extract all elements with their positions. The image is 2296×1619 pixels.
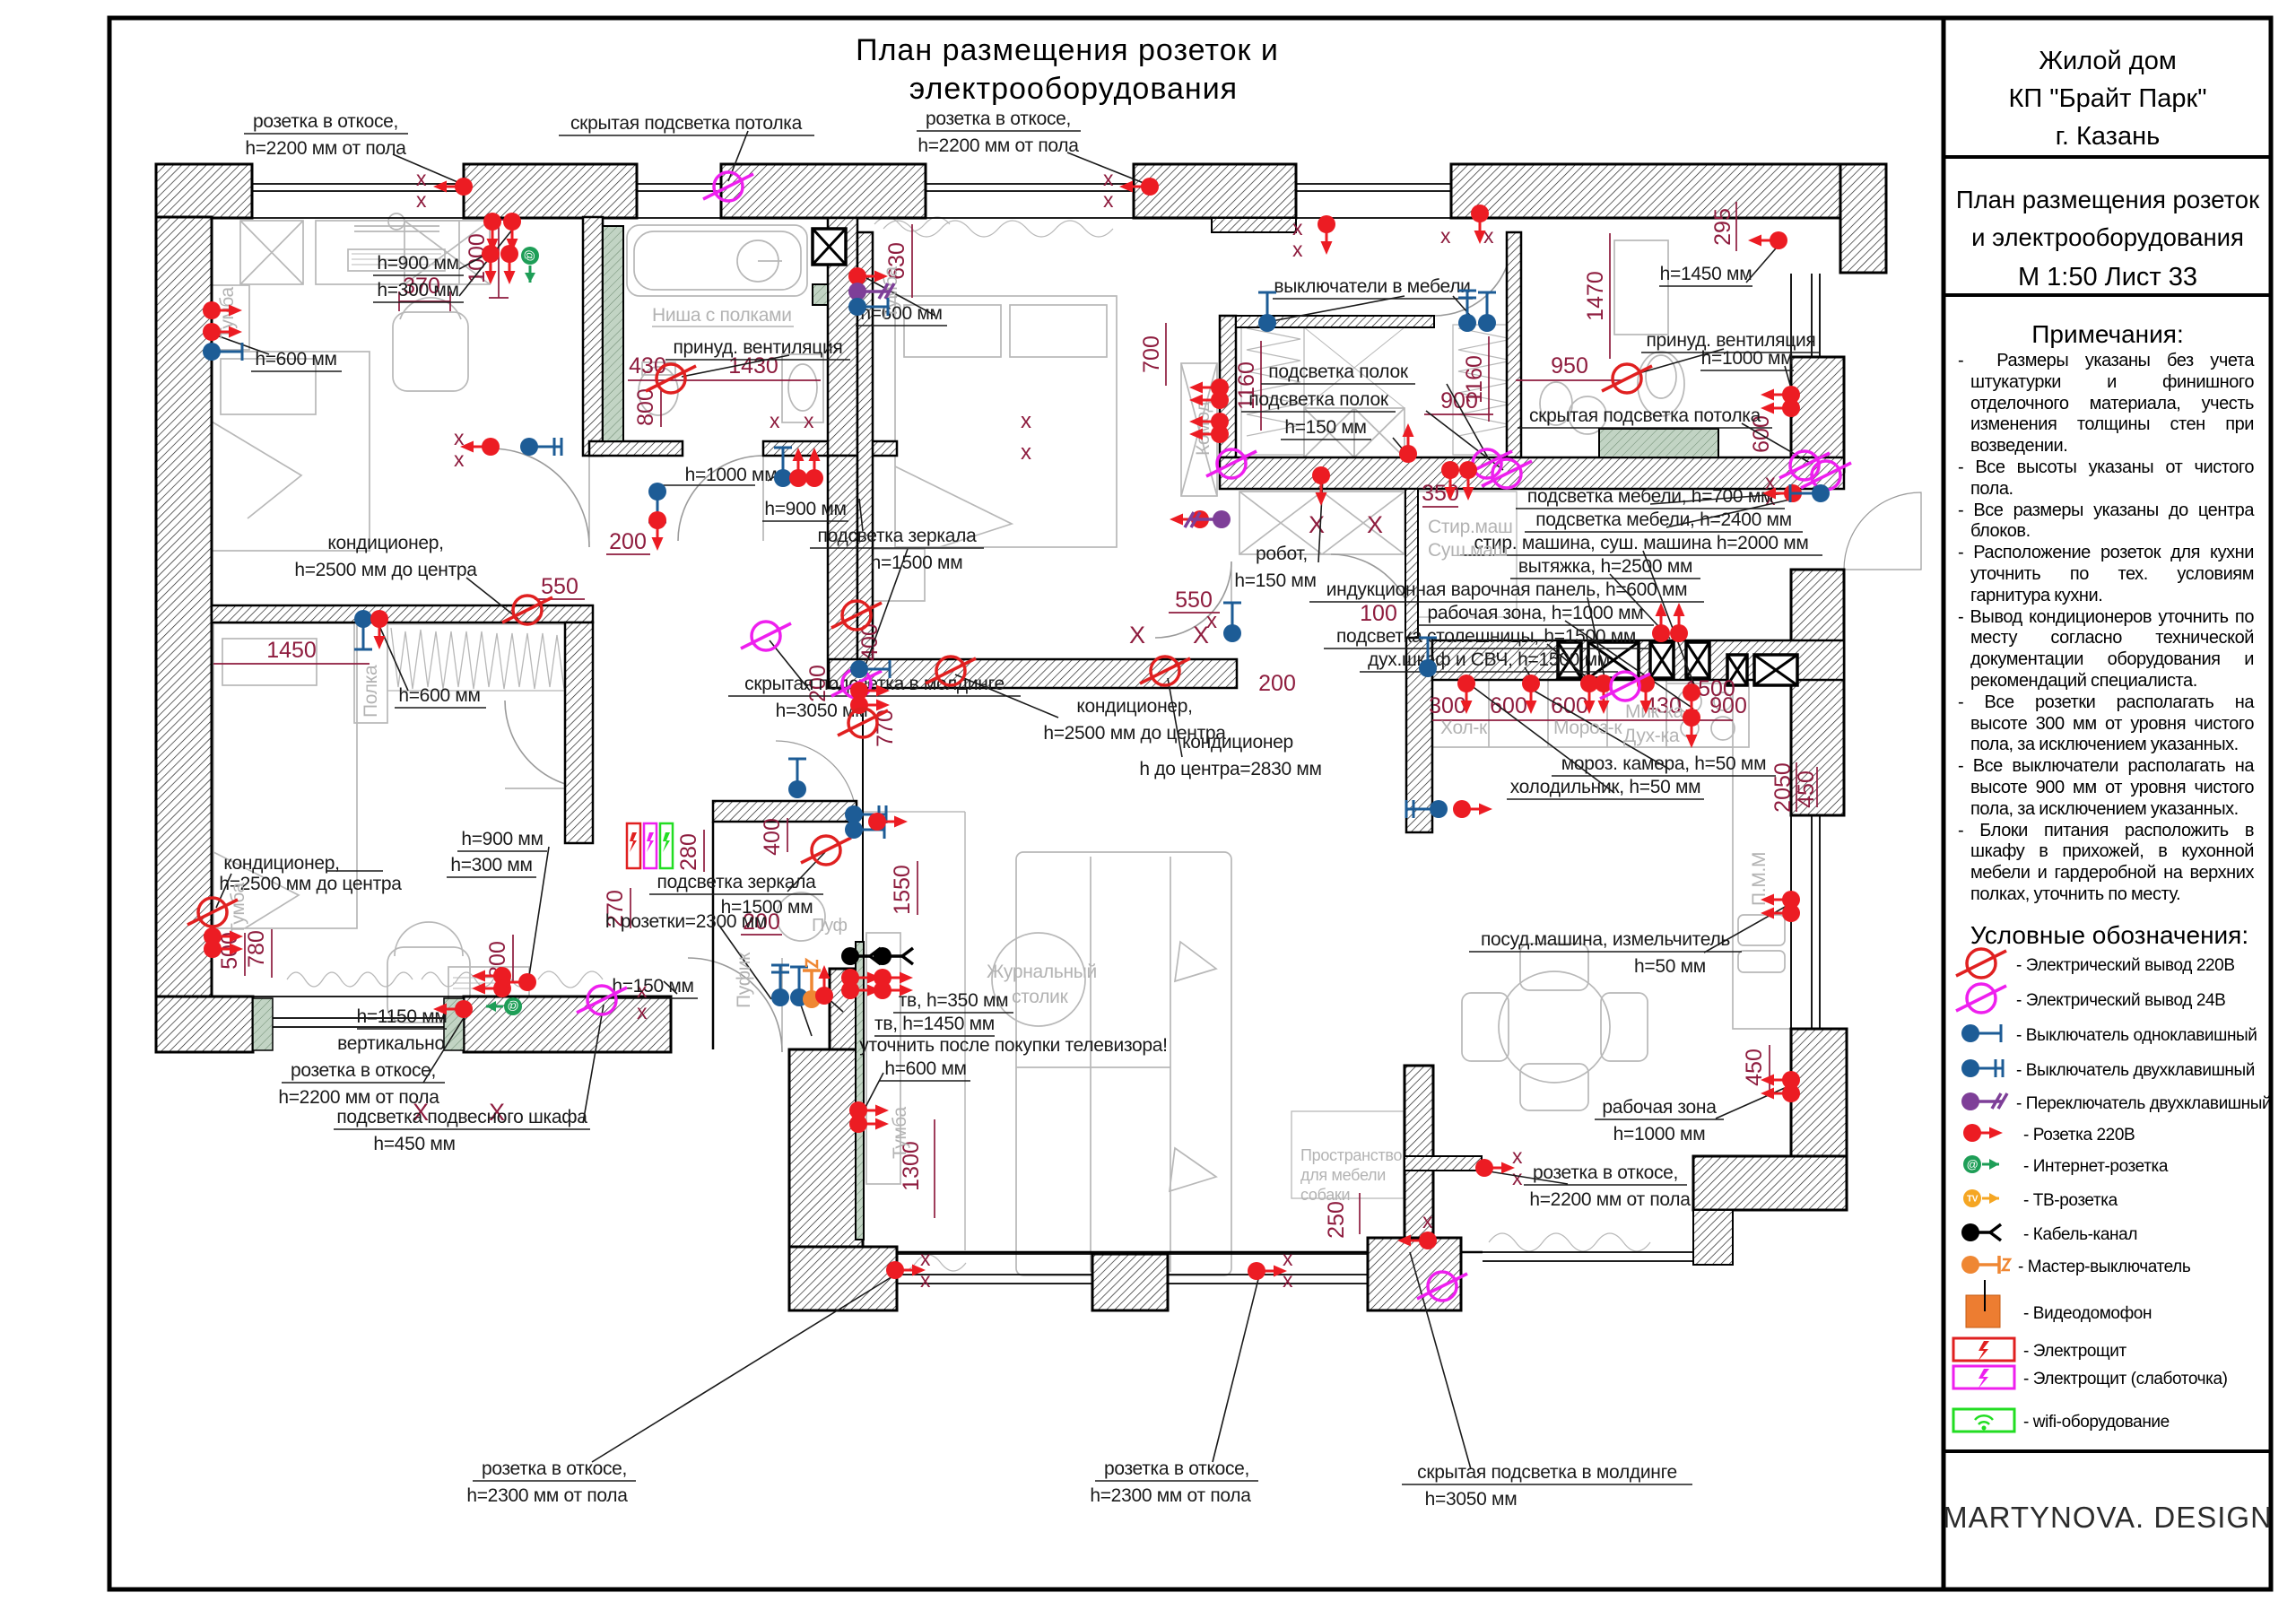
wc2 north wall [713,801,857,822]
kitchen west wall [1406,638,1432,832]
door bedroom1 [491,448,589,547]
svg-text:- Интернет-розетка: - Интернет-розетка [2023,1157,2169,1176]
svg-text:холодильник, h=50 мм: холодильник, h=50 мм [1510,777,1701,797]
radiator squiggles bedroom3 [287,972,413,987]
window jamb green right [444,998,464,1050]
svg-text:450: 450 [1794,770,1819,808]
svg-text:Ниша с полками: Ниша с полками [652,305,792,326]
svg-text:тв, h=350 мм: тв, h=350 мм [899,990,1009,1011]
svg-text:подсветка зеркала: подсветка зеркала [657,872,817,892]
svg-text:600: 600 [1490,693,1527,718]
socket 220V at 1655,1302 [1475,1159,1515,1177]
svg-text:h=150 мм: h=150 мм [612,976,693,997]
bath east wall [828,218,857,456]
svg-text:электрооборудования: электрооборудования [909,72,1238,106]
socket 220V at 1999,550 [1762,484,1802,502]
electrical outlet 24V at 671,1115 [577,986,627,1014]
exterior bottom wall dining [1693,1156,1847,1210]
internet socket at 591,285 [521,247,539,283]
switch 1-key at 1413,360 [1258,292,1276,332]
electrical outlet 24V at 854,709 [741,622,791,650]
svg-text:600: 600 [1551,693,1588,718]
svg-text:Пространство: Пространство [1300,1146,1402,1164]
changeover switch at 1362,579 [1185,510,1231,528]
socket 220V at 236,346 [203,301,242,319]
exterior right wall segment [1791,357,1844,472]
kitchen counter right [1733,680,1791,1029]
svg-text:1470: 1470 [1583,271,1608,321]
socket 220V at 1360,484 [1189,425,1229,443]
wifi equipment box [660,823,673,868]
socket 220V at 1650,238 [1471,205,1489,244]
svg-text:h=900 мм: h=900 мм [764,499,846,519]
svg-text:h=50 мм: h=50 мм [1634,956,1706,977]
svg-text:h=2200 мм от пола: h=2200 мм от пола [278,1087,439,1108]
svg-text:г. Казань: г. Казань [2056,122,2160,151]
socket 220V at 1360,470 [1189,413,1229,431]
socket 220V at 236,370 [203,323,242,341]
svg-text:h=2500 мм до центра: h=2500 мм до центра [294,560,477,580]
wall step dining corner [1693,1210,1733,1265]
bedroom1 desk [316,221,459,284]
kitchen vent box 4 [1686,642,1709,678]
entrance door [688,958,782,1052]
svg-text:x: x [920,1247,931,1270]
legend cable channel [1961,1223,2001,1241]
interior wall closet-hall [565,622,593,843]
socket 220V at 1617,524 [1441,461,1459,500]
electrical outlet 220V at 1060,748 [926,657,976,685]
svg-text:h=2200 мм от пола: h=2200 мм от пола [245,138,406,159]
svg-text:План размещения розеток и: План размещения розеток и [856,33,1279,67]
exterior right wall bottom chunk [1791,1029,1847,1210]
electrical outlet 24V at 812,208 [703,172,753,201]
svg-text:розетка в откосе,: розетка в откосе, [1533,1162,1678,1183]
switch 1-key at 891,1112 [790,967,808,1006]
legend outlet 220V [1956,949,2006,978]
svg-text:1550: 1550 [890,865,915,915]
socket 220V at 1479,250 [1318,215,1335,255]
svg-text:x: x [637,1000,648,1023]
svg-text:Стир.маш: Стир.маш [1428,517,1513,537]
svg-text:Жилой дом: Жилой дом [2039,47,2177,75]
svg-text:столик: столик [1012,987,1069,1007]
svg-text:h=600 мм: h=600 мм [884,1058,966,1079]
svg-text:x: x [1440,224,1451,248]
svg-text:h до центра=2830 мм: h до центра=2830 мм [1139,759,1321,779]
svg-text:индукционная варочная панель,: индукционная варочная панель, h=600 мм [1326,579,1688,600]
hall east wall [828,456,857,688]
socket 220V at 1559,1374 [1397,1232,1437,1249]
wc2 pouf [777,892,825,941]
interior wall between bedrooms [212,605,593,622]
kitchen vent box 3 [1650,642,1674,678]
socket 220V at 978,916 [868,813,908,831]
sidebar divider [1942,18,1946,1589]
kitchen vent box 5 [1727,655,1747,685]
electrical outlet 220V at 955,686 [831,601,882,630]
svg-text:950: 950 [1551,353,1588,379]
exterior right wall segment kitchen [1791,570,1844,815]
svg-text:вертикально: вертикально [337,1033,445,1054]
svg-text:скрытая подсветка потолка: скрытая подсветка потолка [1529,405,1761,426]
svg-text:x: x [1103,188,1114,212]
svg-text:h=2200 мм от пола: h=2200 мм от пола [918,135,1079,156]
switch 2-key at 590,498 [520,438,561,456]
svg-text:x: x [770,409,780,432]
electrical outlet 220V at 583,694 [502,596,552,624]
svg-text:250: 250 [1324,1201,1349,1239]
socket 220V at 1473,530 [1312,466,1330,506]
svg-text:- Кабель-канал: - Кабель-канал [2023,1225,2137,1244]
socket 220V at 1997,1219 [1761,1084,1800,1102]
stove [1666,683,1749,747]
svg-text:X: X [1367,511,1383,538]
electrical outlet 220V at 962,806 [838,709,888,737]
svg-text:x: x [416,188,427,212]
svg-text:200: 200 [609,529,647,554]
socket 220V at 517,208 [433,178,473,196]
socket 220V at 1788,762 [1595,675,1613,714]
svg-text:2050: 2050 [1770,762,1796,813]
svg-text:подсветка столешницы, h=1500 м: подсветка столешницы, h=1500 мм [1336,626,1636,647]
socket 220V at 890,533 [789,448,807,487]
corridor cabinet [1239,492,1405,554]
exterior wall top chunk 3 [721,164,926,218]
socket 220V at 560,1102 [472,979,511,997]
switch 1-key at 733,548 [648,483,666,522]
interior wall bedroom1-bath [583,217,603,456]
socket 220V at 919,1110 [815,965,833,1005]
kitchen vent box 6 [1754,655,1797,685]
socket 220V at 1997,1204 [1761,1071,1800,1089]
switch 1-key at 236,392 [203,343,242,361]
bedroom3 armchair [387,947,470,1023]
bedroom2 bed [895,296,1117,547]
svg-text:- Выключатель одноклавишный: - Выключатель одноклавишный [2016,1026,2257,1045]
vent shaft box [813,229,846,265]
bedroom1 wardrobe [240,221,303,284]
socket 220V at 1886,800 [1683,709,1700,748]
svg-text:мороз. камера, h=50 мм: мороз. камера, h=50 мм [1561,753,1766,774]
svg-text:h=1450 мм: h=1450 мм [1660,264,1752,284]
switch 1-key at 1658,360 [1478,292,1496,332]
bath2 west wall [1507,232,1521,457]
window sill lines [252,184,1820,1284]
svg-text:Мороз-к: Мороз-к [1553,718,1622,738]
svg-text:Тумба: Тумба [228,883,248,935]
svg-text:x: x [454,448,465,471]
underlines [244,131,1822,1484]
svg-text:h=1000 мм: h=1000 мм [685,465,778,485]
svg-text:кондиционер: кондиционер [1182,732,1293,753]
bedroom1 chair [393,312,468,391]
svg-text:x: x [804,409,814,432]
legend internet socket [1963,1155,1999,1173]
svg-text:h=600 мм: h=600 мм [398,685,480,706]
bay bottom wall chunk [1368,1238,1461,1310]
socket 220V at 560,1088 [472,967,511,985]
svg-text:- Выключатель двухклавишный: - Выключатель двухклавишный [2016,1061,2255,1080]
svg-text:- ТВ-розетка: - ТВ-розетка [2023,1191,2118,1210]
svg-text:h=2300 мм от пола: h=2300 мм от пола [1090,1485,1251,1506]
exterior wall top chunk 5 [1451,164,1840,218]
tv stand [866,933,900,1184]
socket 220V at 966,1204 [849,1115,889,1133]
svg-text:и электрооборудования: и электрооборудования [1971,223,2244,251]
bath green niche [603,226,623,441]
electrical outlet 24V at 1373,517 [1206,449,1257,478]
socket 220V at 948,1104 [841,981,881,999]
svg-text:посуд.машина, измельчитель: посуд.машина, измельчитель [1481,929,1730,950]
svg-text:800: 800 [633,388,658,426]
socket 220V at 733,580 [648,511,666,551]
socket 220V at 966,1190 [849,1101,889,1119]
exterior wall top chunk 2 [464,164,637,218]
exterior bottom wall chunk [464,997,671,1052]
svg-text:h=1000 мм: h=1000 мм [1701,348,1794,369]
bedroom2 curtain [883,221,1113,237]
svg-text:уточнить после покупки телевиз: уточнить после покупки телевизора! [859,1035,1167,1056]
svg-text:x: x [1483,224,1494,248]
electrical outlet 220V at 212,963 [187,898,238,927]
bay left wall [1405,1066,1433,1238]
socket 220V at 517,1125 [433,1000,473,1018]
green niches [253,226,1718,1240]
closet2 north wall [1236,316,1434,327]
socket 220V at 1852,706 [1652,603,1670,642]
terrace door [1844,492,1921,570]
svg-text:350: 350 [1422,481,1459,506]
bath2 green vanity [1599,429,1718,457]
svg-text:рабочая зона: рабочая зона [1602,1097,1717,1118]
socket 220V at 1401,1417 [1248,1262,1287,1280]
svg-text:700: 700 [1139,335,1164,373]
svg-text:h=1000 мм: h=1000 мм [1613,1124,1706,1145]
electrical panel 220V [627,823,640,868]
svg-text:h=150 мм: h=150 мм [1234,570,1316,591]
socket 220V at 1997,1003 [1761,891,1800,909]
door bedroom3 [505,701,593,788]
socket 220V at 1835,762 [1637,675,1655,714]
svg-text:розетка в откосе,: розетка в откосе, [1104,1458,1249,1479]
switch 2-key at 1636,360 [1458,291,1476,332]
socket 220V at 958,786 [850,696,890,714]
switch 1-key at 2030,550 [1790,484,1830,502]
socket 220V at 547,498 [460,438,500,456]
sofa [1016,852,1231,1275]
svg-text:430: 430 [629,353,666,379]
svg-text:x: x [1512,1145,1523,1168]
electrical outlet 24V at 955,762 [831,669,882,698]
socket 220V at 984,1090 [874,969,913,987]
svg-text:Полка: Полка [361,665,381,718]
closet2 west wall [1220,316,1236,457]
svg-text:h=900 мм: h=900 мм [461,829,543,849]
socket 220V at 424,683 [370,610,388,649]
closet2 shelf [1304,408,1354,457]
svg-text:x: x [1206,609,1217,633]
bath toilet [639,367,678,415]
bedroom3 desk [448,967,529,1030]
notes text block [1958,351,2254,906]
x marks [413,167,1776,1292]
closet1 hangers [391,628,571,689]
exterior left wall [156,217,212,997]
svg-text:h=1150 мм: h=1150 мм [356,1006,447,1027]
socket 220V at 956,308 [848,267,888,285]
bedroom2 dresser [1181,363,1217,496]
svg-text:розетка в откосе,: розетка в откосе, [291,1060,436,1081]
socket 220V at 958,770 [850,682,890,700]
svg-text:робот,: робот, [1256,544,1308,564]
svg-text:h розетки=2300 мм: h розетки=2300 мм [605,911,767,932]
walls hatched [156,164,1886,1310]
corridor east wall [1405,489,1418,638]
socket 220V at 237,1058 [204,940,243,958]
socket 220V at 568,283 [500,245,518,284]
legend changeover switch [1961,1092,2007,1110]
svg-text:выключатели в мебели: выключатели в мебели [1274,276,1470,297]
svg-text:- Электрощит (слаботочка): - Электрощит (слаботочка) [2023,1370,2228,1388]
switch 1-key at 958,746 [850,660,890,678]
kitchen black X boxes [813,229,1797,685]
electrical outlet 220V at 1299,748 [1140,657,1190,685]
tv wall upper part [830,969,863,1049]
svg-text:x: x [416,167,427,190]
svg-text:- Видеодомофон: - Видеодомофон [2023,1304,2152,1323]
switch 1-key at 952,925 [845,821,884,839]
master switch at 905,1114 [803,960,821,1008]
dog furniture area [1291,1111,1404,1198]
svg-text:розетка в откосе,: розетка в откосе, [482,1458,627,1479]
svg-text:собаки: собаки [1300,1186,1350,1204]
entry bottom wall chunk [789,1247,897,1310]
cable channel at 984,1066 [874,947,913,965]
living floor edge line [964,812,966,1250]
legend tv socket [1963,1189,1999,1207]
legend wifi equipment [1953,1409,2014,1432]
kitchen north wall [1432,640,1844,680]
living floor edge line [964,812,966,1250]
svg-text:- Переключатель двухклавишный: - Переключатель двухклавишный [2016,1094,2271,1113]
socket 220V at 1983,268 [1748,231,1787,249]
legend master switch [1961,1256,2010,1274]
svg-text:h=2300 мм от пола: h=2300 мм от пола [466,1485,628,1506]
legend socket 220V [1963,1124,2003,1142]
socket 220V at 1282,208 [1119,178,1159,196]
switch 1-key at 1374,706 [1223,603,1241,642]
svg-text:- Мастер-выключатель: - Мастер-выключатель [2018,1258,2191,1276]
bedroom2 nightstand [873,549,925,601]
svg-text:Суш.маш: Суш.маш [1428,540,1508,561]
switch 1-key at 1592,745 [1419,638,1437,677]
window jamb green left [253,998,273,1050]
svg-text:вытяжка, h=2500 мм: вытяжка, h=2500 мм [1518,556,1692,577]
svg-text:- Электрический вывод 220В: - Электрический вывод 220В [2016,956,2235,975]
svg-text:x: x [1292,216,1303,239]
svg-text:MARTYNOVA. DESIGN: MARTYNOVA. DESIGN [1943,1501,2273,1534]
legend switch 2-key [1961,1059,2003,1077]
socket 220V at 1997,440 [1761,386,1800,404]
svg-text:подсветка подвесного шкафа: подсветка подвесного шкафа [336,1107,587,1127]
svg-text:кондиционер,: кондиционер, [223,853,339,874]
svg-text:- Электрический вывод 24В: - Электрический вывод 24В [2016,991,2225,1010]
socket 220V at 1772,762 [1580,675,1598,714]
svg-text:кондиционер,: кондиционер, [327,533,443,553]
svg-text:X: X [1309,511,1325,538]
svg-text:Хол-к: Хол-к [1440,718,1488,738]
bath south wall left [589,441,683,456]
svg-text:x: x [1512,1166,1523,1189]
bath2 cabinet [1614,240,1668,335]
socket 220V at 1997,1018 [1761,904,1800,922]
socket 220V at 1707,762 [1522,675,1540,714]
legend video intercom [1966,1295,2000,1327]
svg-text:x: x [1021,440,1031,465]
svg-text:подсветка полок: подсветка полок [1268,361,1409,382]
electrical outlet 24V at 1812,765 [1600,672,1650,701]
svg-text:780: 780 [244,930,269,968]
bath green jamb [813,284,828,305]
svg-text:X: X [1129,622,1145,648]
bedroom2 south wall [829,659,1237,688]
laundry niche [1418,492,1517,617]
changeover switch at 956,325 [848,283,894,300]
svg-text:План размещения розеток: План размещения розеток [1956,186,2260,213]
exterior wall top-right corner pier [1840,164,1886,273]
exterior wall bottom-left corner [156,997,253,1052]
socket 220V at 1570,506 [1399,423,1417,463]
entry west wall [789,1049,863,1247]
svg-text:кондиционер,: кондиционер, [1076,696,1192,717]
socket 220V at 948,1090 [841,969,881,987]
svg-text:Комод: Комод [1193,402,1213,456]
socket 220V at 236,1057 [204,927,243,945]
furniture layer [212,213,1791,1275]
svg-text:Дух-ка: Дух-ка [1623,726,1680,746]
svg-text:подсветка мебели, h=2400 мм: подсветка мебели, h=2400 мм [1535,509,1792,530]
switch 2-key at 952,908 [845,805,886,823]
svg-text:- Электрощит: - Электрощит [2023,1342,2126,1361]
svg-text:h=150 мм: h=150 мм [1284,417,1366,438]
svg-text:для мебели: для мебели [1300,1166,1386,1184]
kitchen counters [1432,746,1733,748]
door bath [678,456,763,541]
svg-text:Пуфик: Пуфик [734,952,754,1008]
electrical outlet 24V at 2036,530 [1801,461,1851,490]
svg-text:400: 400 [760,818,785,856]
switch 1-key at 404,683 [354,610,372,649]
svg-text:280: 280 [676,833,701,871]
socket 220V at 1637,524 [1459,461,1477,500]
svg-text:200: 200 [1258,671,1296,696]
door closet2 [1434,238,1512,316]
svg-text:h=450 мм: h=450 мм [373,1134,455,1154]
svg-text:Тумба: Тумба [890,1107,910,1159]
tv wall green panel [856,942,864,1240]
svg-text:М 1:50 Лист 33: М 1:50 Лист 33 [2018,263,2197,292]
socket 220V at 549,247 [483,213,501,252]
svg-text:подсветка мебели, h=700 мм: подсветка мебели, h=700 мм [1527,486,1773,507]
svg-text:КП "Брайт Парк": КП "Брайт Парк" [2009,84,2207,113]
bath south wall right [763,441,897,456]
svg-text:- wifi-оборудование: - wifi-оборудование [2023,1413,2170,1432]
svg-text:подсветка зеркала: подсветка зеркала [818,526,978,546]
electrical panels in hall [627,823,673,868]
bottom curtains living [865,1255,966,1271]
kitchen vent box 2 [1588,642,1639,678]
